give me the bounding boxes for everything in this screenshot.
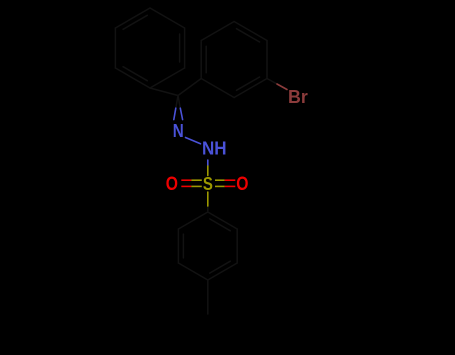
svg-text:O: O bbox=[236, 173, 248, 195]
svg-text:O: O bbox=[166, 173, 178, 195]
svg-text:S: S bbox=[203, 173, 213, 194]
tosyl ring bbox=[178, 212, 237, 280]
bond S-C1 olive half bbox=[207, 192, 209, 206]
bond S-C1 dark half bbox=[207, 206, 209, 212]
phenyl ring B (right, bromo) bbox=[201, 22, 267, 98]
bond C-Br red half bbox=[277, 84, 287, 90]
bond N2-S blue half bbox=[207, 160, 209, 166]
bond N1-N2 bbox=[186, 138, 201, 144]
S=O right double bond bbox=[215, 180, 235, 186]
svg-text:NH: NH bbox=[202, 139, 227, 159]
bond N2-S olive half bbox=[207, 166, 209, 176]
phenyl ring A (left) bbox=[115, 8, 184, 88]
methyl bond bbox=[207, 280, 209, 314]
svg-text:Br: Br bbox=[288, 87, 308, 107]
bond ring A to C9 bbox=[150, 88, 178, 96]
bond ring B to C9 bbox=[178, 79, 201, 96]
C9=N1 double bond blue halves bbox=[174, 108, 208, 166]
C9=N1 double bond upper dark halves bbox=[176, 96, 178, 109]
svg-text:N: N bbox=[173, 120, 184, 141]
S=O left double bond bbox=[181, 180, 202, 186]
bond C-Br dark half bbox=[267, 79, 277, 85]
